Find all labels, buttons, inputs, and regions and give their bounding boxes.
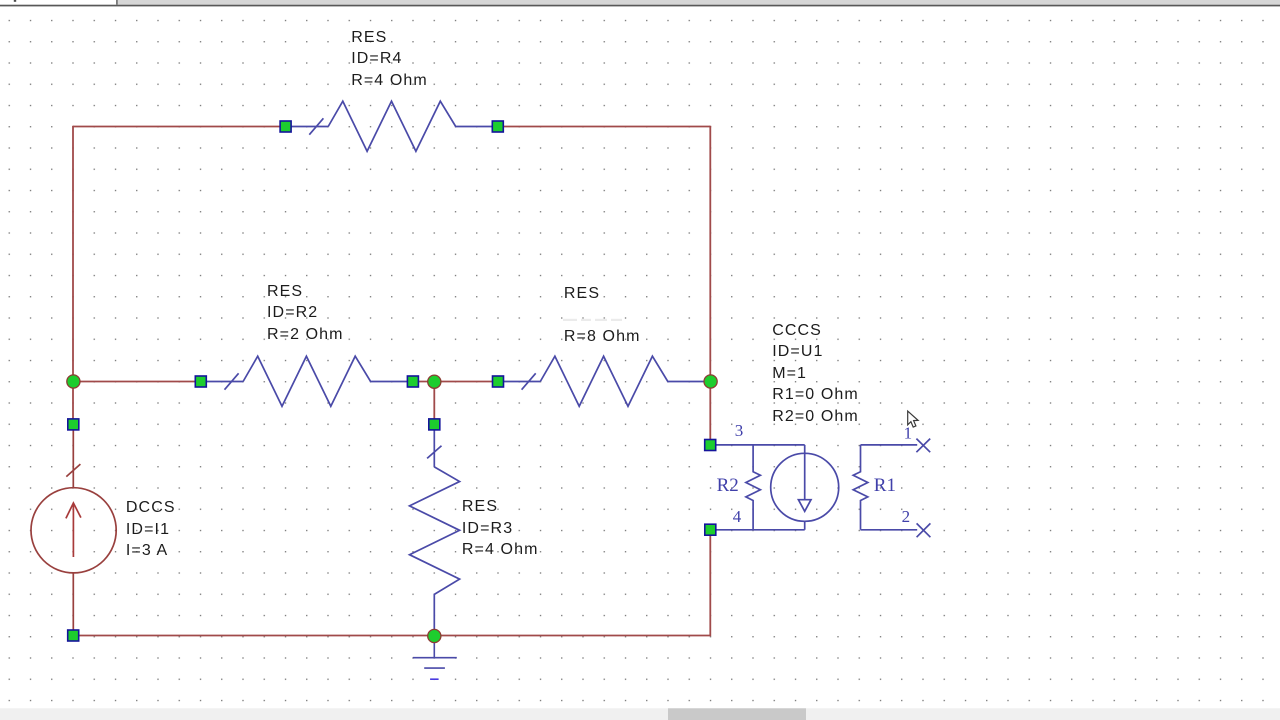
node A junction (73,381.5) — [67, 375, 80, 388]
wire: right rail vertical lower (710.3,535)-(710.3,635.5) — [709, 535, 711, 636]
node C junction (710.6,381.5) — [704, 375, 717, 388]
CCCS source circle — [771, 453, 839, 521]
wire: top rail right segment (502,126.5)-(710.3,126.5) — [502, 126, 710, 128]
wire: mid rail R2 to R8 through node B (413,381.5)-(498,381.5) — [413, 381, 498, 383]
CCCS U1 body — [716, 439, 931, 538]
DCCS arrow — [66, 503, 81, 557]
port square CCCS pin4 — [705, 524, 716, 535]
svg-text:1: 1 — [904, 423, 913, 442]
port square R2 pin2 — [407, 376, 418, 387]
wire: right rail vertical upper (710.3,126.5)-(710.3,440) — [709, 126, 711, 440]
wire: mid rail node A to R2 (73,381.5)-(200,381.5) — [73, 381, 201, 383]
label RES R=8 Ohm — [564, 283, 600, 305]
resistor R4 — [286, 101, 498, 151]
wire: CCCS top bar port3 to source — [716, 444, 805, 446]
port square DCCS bottom — [68, 630, 79, 641]
open node X pin 2 — [917, 523, 931, 537]
label RES ID=R4 R=4 Ohm — [351, 27, 428, 92]
port square CCCS pin3 — [705, 440, 716, 451]
CCCS arrow head — [798, 500, 811, 512]
resistor R2 — [201, 356, 413, 406]
wire: CCCS bottom bar port4 to source — [716, 529, 805, 531]
port square R8 pin1 — [493, 376, 504, 387]
svg-text:2: 2 — [902, 507, 911, 526]
label RES ID=R2 R=2 Ohm — [267, 281, 344, 346]
port square R4 pin1 — [280, 121, 291, 132]
label DCCS ID=I1 I=3 A — [126, 497, 176, 562]
wire: pin 1 stub — [861, 444, 918, 446]
node GND junction (434.3,636) — [428, 629, 441, 642]
wire: pin 2 stub — [861, 529, 918, 531]
label RES ID=R3 R=4 Ohm — [462, 496, 539, 561]
bottom scrollbar — [0, 708, 1280, 720]
resistor R8 (R1, 8 Ohm) — [498, 356, 704, 406]
port square DCCS top — [68, 419, 79, 430]
wire: top rail left segment (73,126.5)-(281,126.5) — [73, 126, 282, 128]
open node X pin 1 — [916, 439, 930, 453]
resistor R3 (vertical) — [410, 424, 460, 629]
CCCS internal resistor R1 — [853, 445, 868, 530]
wire: left rail vertical (73,126.5)-(73,424) — [72, 126, 74, 424]
CCCS arrow shaft — [804, 453, 806, 499]
CCCS internal resistor R2 — [746, 445, 761, 530]
port square R3 top — [429, 419, 440, 430]
svg-text:R1: R1 — [874, 475, 896, 496]
wire: node B to R3 vertical (434.3,381.5)-(434.3,424) — [433, 382, 435, 425]
mouse cursor — [908, 411, 918, 427]
ground — [413, 643, 457, 680]
svg-text:3: 3 — [735, 421, 744, 440]
node B junction (434.3,381.7) — [428, 375, 441, 388]
port square R2 pin1 — [195, 376, 206, 387]
svg-text:R2: R2 — [717, 475, 739, 496]
top chrome — [118, 0, 1280, 5]
svg-text:4: 4 — [733, 507, 742, 526]
wire: bottom rail (73,635.5)-(710.3,635.5) — [73, 635, 710, 637]
port square R4 pin2 — [492, 121, 503, 132]
label CCCS ID=U1 M=1 R1=0 Ohm R2=0 Ohm — [772, 320, 859, 428]
current source DCCS I1 — [31, 429, 116, 631]
